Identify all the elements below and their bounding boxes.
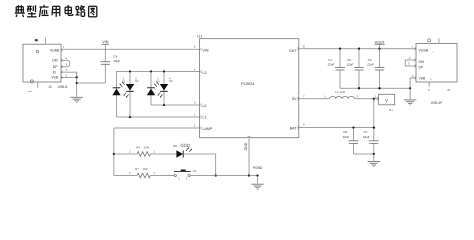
svg-text:PGND: PGND bbox=[253, 166, 263, 170]
capacitor C7 leads bbox=[373, 144, 375, 154]
junction dot C2 top bbox=[358, 48, 360, 50]
J1 shield tick bottom bbox=[428, 82, 430, 87]
svg-text:OUT: OUT bbox=[289, 49, 297, 53]
svg-text:22uF: 22uF bbox=[327, 63, 335, 67]
U1 pin number 7 bbox=[303, 94, 305, 98]
J1 refdes label bbox=[447, 88, 451, 92]
svg-text:D3: D3 bbox=[156, 80, 160, 84]
junction dot rail L3 / D2 bbox=[129, 70, 131, 72]
capacitor C7 bbox=[369, 141, 379, 144]
resistor R4 bbox=[137, 152, 151, 157]
J1 pin name DM bbox=[419, 60, 424, 64]
svg-text:10uF: 10uF bbox=[363, 135, 370, 139]
J1 pin name VSB bbox=[419, 76, 433, 81]
wire LED branch D2 bbox=[129, 72, 131, 118]
J1 pin number 4 bbox=[412, 74, 414, 78]
U1 pin name OUT bbox=[289, 49, 297, 53]
svg-text:R7: R7 bbox=[135, 167, 139, 171]
svg-text:20K: 20K bbox=[143, 167, 148, 171]
J3 pin name DP bbox=[53, 65, 58, 69]
svg-text:L3: L3 bbox=[203, 71, 207, 75]
junction dot C8 top bbox=[352, 126, 354, 128]
capacitor C4 top lead bbox=[104, 49, 106, 61]
wire LAMP pin to left rail bbox=[114, 127, 200, 129]
capacitor C1 bbox=[335, 67, 345, 70]
C2 label bbox=[346, 58, 354, 67]
wire J3 VSB to ground rail bbox=[61, 76, 77, 78]
junction dot GND pin node bbox=[248, 174, 250, 176]
svg-text:DM: DM bbox=[52, 59, 57, 63]
pin end ticks U1 right bbox=[297, 47, 299, 129]
wire battery ground drop bbox=[373, 154, 375, 161]
svg-text:C4: C4 bbox=[113, 54, 117, 58]
svg-text:VUSB: VUSB bbox=[419, 49, 429, 53]
svg-text:J1: J1 bbox=[447, 88, 451, 92]
svg-text:D2: D2 bbox=[135, 79, 139, 83]
ground symbol PGND bbox=[251, 184, 263, 189]
wire PGND vertical bbox=[257, 176, 259, 184]
svg-text:BAT: BAT bbox=[290, 126, 298, 130]
wire S1 to GND node bbox=[190, 175, 249, 177]
junction dot C4 return node bbox=[76, 82, 78, 84]
U1 pin name 5V bbox=[292, 97, 297, 101]
R4 branch pin number 2 bbox=[129, 150, 131, 154]
wire LED branch D1 bbox=[116, 72, 118, 118]
wire rail L3 (top LED rail) bbox=[117, 71, 201, 73]
pin end tick U1 GND bbox=[248, 136, 251, 138]
J3 pin number 1 bbox=[63, 45, 65, 49]
J3 pin number 3 bbox=[66, 63, 68, 67]
LED D3 (up) bbox=[147, 88, 155, 95]
capacitor C4 bottom lead bbox=[104, 64, 106, 83]
capacitor C3 bbox=[375, 67, 385, 70]
J1 part label USB-4P bbox=[431, 101, 443, 105]
ground symbol GND (output) bbox=[404, 100, 416, 105]
pin end ticks J1 bbox=[414, 47, 416, 79]
svg-text:C8: C8 bbox=[343, 130, 347, 134]
svg-text:VUSB: VUSB bbox=[50, 48, 60, 52]
J1 shield tick top bbox=[438, 38, 440, 43]
J1 pin name DP bbox=[419, 66, 424, 70]
U1 pin name LAMP bbox=[203, 127, 213, 131]
junction dot left rail / R4 branch bbox=[113, 153, 115, 155]
U1 pin number 8 bbox=[303, 44, 305, 48]
S1 pin number 1 bbox=[178, 176, 180, 180]
U1 pin number 1 bbox=[194, 124, 196, 128]
junction dot rail L3 / D3 bbox=[150, 70, 152, 72]
R4 branch pin number 1 bbox=[154, 150, 156, 154]
junction dot C1 top bbox=[339, 48, 341, 50]
J1 mounting circle top bbox=[428, 39, 431, 42]
svg-text:C2: C2 bbox=[347, 58, 351, 62]
LED D3 labels bbox=[156, 76, 160, 83]
R7 branch pin number 2 bbox=[129, 171, 131, 175]
wire R7 to S1 bbox=[151, 175, 175, 177]
wire R7 branch left lead bbox=[114, 175, 137, 177]
U1 pin name L1 bbox=[203, 115, 207, 119]
inductor L1 1UH bbox=[330, 96, 355, 98]
junction dot C2 bottom bbox=[358, 87, 360, 89]
svg-text:22uF: 22uF bbox=[366, 63, 374, 67]
R4 label 20R bbox=[136, 146, 150, 150]
svg-text:PL5024: PL5024 bbox=[241, 81, 255, 86]
LED D3 light arrows bbox=[154, 82, 159, 87]
capacitor C3 leads bbox=[379, 49, 381, 89]
J1 sub label 5 bbox=[428, 88, 430, 92]
PGND label bbox=[253, 166, 263, 170]
svg-text:D8: D8 bbox=[173, 144, 177, 148]
C3 label bbox=[366, 58, 374, 67]
svg-text:22uF: 22uF bbox=[346, 63, 354, 67]
junction dot rail L3 / D4 bbox=[163, 70, 165, 72]
U1 pin name GND (rotated) bbox=[244, 142, 248, 150]
wire R4 to D8 bbox=[151, 153, 177, 155]
svg-text:L2: L2 bbox=[203, 104, 207, 108]
U1 pin number 4 bbox=[194, 67, 196, 71]
LED D1 labels bbox=[122, 76, 126, 83]
J3 mounting pad top (filled) bbox=[35, 39, 38, 41]
J3 refdes label J3 USB-B bbox=[48, 85, 67, 89]
capacitor C8 leads bbox=[353, 128, 355, 154]
svg-text:20R: 20R bbox=[144, 146, 150, 150]
L1 pin number 2 bbox=[357, 94, 359, 98]
wire battery node down to BAT rail bbox=[373, 99, 375, 141]
S1 refdes bbox=[193, 169, 197, 173]
J3 pin number 2 bbox=[66, 56, 68, 60]
LED D4 labels bbox=[169, 76, 173, 83]
LED D4 light arrows bbox=[158, 92, 163, 97]
wire LED branch D4 bbox=[163, 72, 165, 106]
svg-text:V: V bbox=[385, 98, 388, 103]
capacitor C2 bbox=[354, 67, 364, 70]
R7 branch pin number 1 bbox=[154, 171, 156, 175]
S1 pin number 2 bbox=[186, 176, 188, 180]
pin end ticks J3 bbox=[61, 49, 63, 79]
capacitor C8 bbox=[349, 141, 359, 144]
wire R4 branch left lead bbox=[114, 153, 137, 155]
J1 pin number 2 bbox=[409, 56, 411, 60]
wire J1 VSB to ground rail bbox=[410, 78, 416, 88]
resistor R7 bbox=[137, 173, 151, 178]
LED D8 (right) bbox=[176, 150, 183, 157]
ground symbol GND (USB-B input) bbox=[71, 97, 83, 102]
voltmeter/battery connector V box bbox=[379, 94, 395, 105]
J3 pin number 4 bbox=[66, 68, 68, 72]
LED D2 light arrows bbox=[124, 92, 129, 97]
ground symbol GND (battery) bbox=[368, 162, 380, 167]
J1 pin name VUSB bbox=[419, 49, 435, 54]
J3 mounting circle bottom-left bbox=[30, 80, 33, 83]
U1 refdes bbox=[197, 34, 202, 39]
svg-text:D1: D1 bbox=[122, 80, 126, 84]
U1 GND pin wire bbox=[248, 138, 250, 176]
svg-text:10uF: 10uF bbox=[343, 135, 350, 139]
U1 pin name BAT bbox=[290, 126, 298, 130]
no-connect loop shorting J3 DM/DP bbox=[61, 60, 70, 67]
LED D2 (down) bbox=[126, 84, 134, 91]
capacitor C1 leads bbox=[339, 49, 341, 89]
J3 shield mark under box bbox=[28, 90, 31, 92]
D8 label bbox=[173, 144, 189, 148]
switch S1 pushbutton bbox=[174, 170, 191, 177]
U1 pin name VIN bbox=[203, 48, 209, 52]
B+ label bbox=[389, 108, 393, 112]
capacitor C2 leads bbox=[358, 49, 360, 89]
J3 pin name VUSB bbox=[50, 48, 60, 52]
LED D8 light arrows bbox=[186, 147, 192, 152]
no-connect bracket shorting J1 DM/DP bbox=[405, 60, 416, 66]
svg-text:B+: B+ bbox=[389, 108, 393, 112]
J3 shield tick bottom bbox=[37, 82, 39, 88]
wire GND node to PGND drop bbox=[249, 175, 258, 177]
junction dot rail L1 / D2 branch bbox=[129, 116, 131, 118]
svg-text:VIN: VIN bbox=[203, 48, 209, 52]
power flag VOUT bbox=[375, 40, 386, 48]
svg-text:VOUT: VOUT bbox=[375, 40, 386, 44]
C1 label bbox=[327, 58, 335, 67]
J3 shield tick top bbox=[45, 38, 47, 44]
LED D1 light arrows bbox=[120, 82, 125, 87]
wire VUSB J3 pin1 to U1 VIN (node VIN) bbox=[61, 48, 200, 50]
svg-text:C1: C1 bbox=[328, 58, 332, 62]
svg-text:USB-B: USB-B bbox=[58, 85, 68, 89]
J3 pin name ID bbox=[53, 70, 57, 74]
svg-text:DP: DP bbox=[419, 66, 424, 70]
svg-text:DM: DM bbox=[419, 60, 424, 64]
U1 pin name L2 bbox=[203, 104, 207, 108]
connector J3 USB-B body bbox=[23, 44, 61, 82]
U1 pin name L3 bbox=[203, 71, 207, 75]
svg-text:VSB: VSB bbox=[419, 76, 427, 80]
wire left rail vertical bbox=[113, 128, 115, 176]
junction dot J3 VSB node bbox=[76, 76, 78, 78]
svg-text:C7: C7 bbox=[364, 130, 368, 134]
wire D8 to right rail bbox=[183, 153, 216, 155]
svg-text:10uF: 10uF bbox=[113, 59, 120, 63]
LED D4 (down) bbox=[160, 84, 168, 91]
svg-text:L1 1UH: L1 1UH bbox=[335, 90, 345, 94]
junction dot rail / J1 VSB bbox=[409, 87, 411, 89]
connector J1 USB-4P body bbox=[416, 43, 457, 82]
wire battery cap ground rail bbox=[354, 153, 374, 155]
svg-text:5V: 5V bbox=[292, 97, 297, 101]
svg-text:VSB: VSB bbox=[51, 76, 59, 80]
svg-text:GND: GND bbox=[244, 142, 248, 150]
J3 pin name DM bbox=[52, 59, 57, 63]
svg-text:VIN: VIN bbox=[102, 40, 108, 44]
svg-text:LAMP: LAMP bbox=[203, 127, 213, 131]
LED D2 labels bbox=[135, 76, 139, 83]
pin end ticks S1 and V box bbox=[377, 97, 379, 100]
U1 pin number 2 bbox=[194, 113, 196, 117]
L1 value label bbox=[335, 90, 345, 94]
svg-text:DP: DP bbox=[53, 65, 58, 69]
wire right rail vertical bbox=[215, 154, 217, 176]
R7 label 20K bbox=[135, 167, 148, 171]
wire ground drop J3 bbox=[76, 77, 78, 96]
wire J3 ID to ground rail bbox=[61, 72, 77, 77]
svg-text:R4: R4 bbox=[136, 146, 140, 150]
LED D1 (up) bbox=[112, 88, 120, 95]
C7 label bbox=[363, 130, 370, 139]
wire OUT to J1 VUSB (node VOUT) bbox=[299, 48, 416, 50]
wire LED branch D3 bbox=[150, 72, 152, 106]
wire rail L2 (middle LED rail) bbox=[151, 104, 200, 106]
wire 5V to L1 bbox=[299, 98, 330, 100]
junction dot rail L2 / D4 branch bbox=[163, 104, 165, 106]
wire L1 to battery node bbox=[355, 98, 379, 100]
wire C4 return to ground node bbox=[77, 82, 106, 84]
title text 典型应用电路图 (drawn as vector strokes) bbox=[15, 5, 97, 17]
V-box pin number 1 bbox=[375, 94, 377, 98]
capacitor C4 bbox=[100, 62, 110, 65]
U1 pin number 3 bbox=[194, 100, 196, 104]
J1 pin number 1 bbox=[411, 45, 413, 49]
J3 pin number 5 bbox=[66, 73, 68, 77]
L1 pin number 1 bbox=[324, 94, 326, 98]
svg-text:S1: S1 bbox=[193, 169, 197, 173]
wire rail to output ground bbox=[409, 88, 411, 99]
power flag VIN bbox=[102, 40, 109, 49]
op-amp/IC U1 body PL5024 bbox=[200, 39, 299, 138]
U1 pin number 6 bbox=[303, 122, 305, 126]
junction dot C7 top bbox=[373, 126, 375, 128]
J3 pin name VSB bbox=[51, 76, 59, 80]
junction dot C3 top / VOUT bbox=[378, 48, 380, 50]
junction dot battery ground bbox=[373, 153, 375, 155]
junction dot battery node bbox=[373, 98, 375, 100]
wire output cap ground rail bbox=[340, 87, 410, 89]
junction dot right rail on GND rail bbox=[215, 174, 217, 176]
junction dot PGND drop bbox=[256, 174, 258, 176]
wire BAT pin to battery node bbox=[299, 127, 374, 129]
svg-text:U1: U1 bbox=[197, 34, 202, 39]
wire rail L1 (bottom LED rail) bbox=[117, 116, 201, 118]
svg-text:USB-4P: USB-4P bbox=[431, 101, 443, 105]
svg-text:C3: C3 bbox=[368, 58, 372, 62]
pin end ticks U1 left bbox=[200, 48, 202, 130]
svg-text:L1: L1 bbox=[203, 115, 207, 119]
U1 pin number 5 bbox=[194, 45, 196, 49]
junction dot C3 bottom bbox=[378, 87, 380, 89]
svg-text:J3: J3 bbox=[48, 85, 52, 89]
svg-text:D4: D4 bbox=[169, 79, 173, 83]
C4 value label bbox=[113, 54, 120, 63]
J3 inner polarization circle bbox=[36, 50, 38, 52]
svg-text:ID: ID bbox=[53, 70, 57, 74]
C8 label bbox=[343, 130, 350, 139]
U1 part number PL5024 bbox=[241, 81, 255, 86]
J1 pin number 3 bbox=[408, 62, 410, 66]
